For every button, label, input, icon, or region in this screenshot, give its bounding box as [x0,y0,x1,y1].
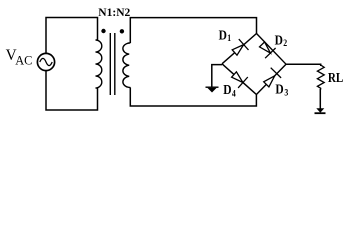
transformer secondary coil [123,43,130,87]
svg-text:D: D [275,32,284,47]
svg-text:D: D [223,82,232,97]
svg-text:1: 1 [227,34,231,44]
polarity dot secondary [120,29,124,33]
wire edge B-R [256,64,286,94]
wire edge L-B [222,64,256,95]
transformer primary coil [96,40,102,88]
polarity dot primary [101,29,105,33]
transformer core [109,33,111,95]
wire: secondary top rail to bridge top [130,18,256,43]
wire edge L-T [222,34,257,64]
wire: right vertex to RL [286,64,321,66]
ground (right) [315,108,326,113]
wire: left vertex to ground [212,65,222,87]
svg-text:2: 2 [283,39,287,49]
wire: secondary bottom rail to bridge bottom [130,87,256,106]
diode D2 [260,42,276,58]
svg-text:D: D [275,82,284,97]
wire edge T-R [257,34,287,65]
svg-text:RL: RL [328,71,343,86]
svg-text:AC: AC [15,54,32,68]
diode D1 [232,39,248,55]
svg-text:4: 4 [232,90,236,100]
wire: RL bottom to ground [319,89,321,112]
resistor RL [317,65,324,90]
ground (left, arrow style) [206,87,219,92]
svg-text:N1:N2: N1:N2 [98,7,130,19]
label V_AC [6,47,33,68]
svg-text:D: D [219,27,228,42]
svg-text:3: 3 [284,89,288,99]
wire: left loop bottom [46,70,98,110]
AC source VAC [37,53,54,70]
diode D3 [264,68,281,87]
diode D4 [232,72,248,88]
wire: left loop top [46,18,98,54]
